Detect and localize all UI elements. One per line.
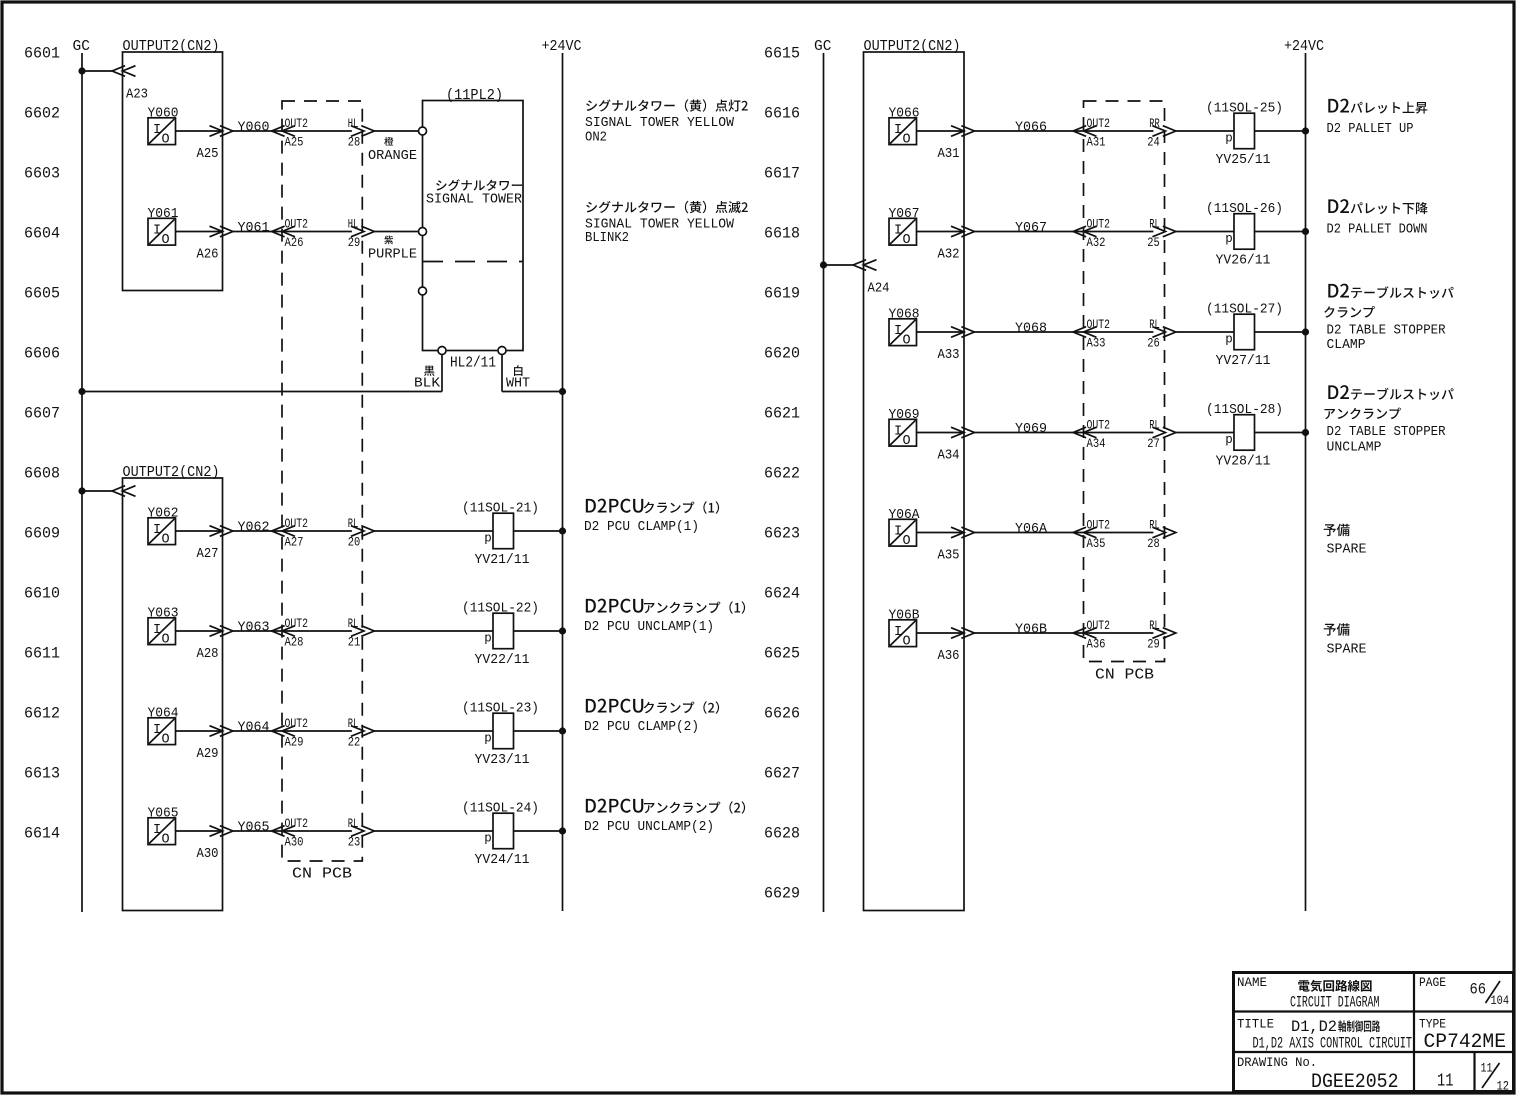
svg-text:6613: 6613: [24, 765, 60, 783]
arrow Y06A into CN PCB left edge: [1073, 527, 1096, 538]
svg-text:PURPLE: PURPLE: [368, 247, 417, 263]
svg-text:O: O: [903, 635, 911, 650]
wire Y065 connector to CN PCB: [233, 830, 352, 832]
wire Y063 connector to CN PCB: [233, 630, 352, 632]
signal tower name (Japanese): [436, 179, 522, 191]
wire Y067 CN PCB to solenoid: [1176, 231, 1234, 233]
annotation SIGNAL TOWER YELLOW ON2: [585, 115, 735, 146]
arrow Y062 out of CN PCB right edge: [351, 526, 374, 537]
svg-text:NAME: NAME: [1237, 976, 1267, 990]
wire solenoid YV28/11 to +24VC: [1255, 432, 1306, 434]
svg-text:6615: 6615: [764, 45, 800, 63]
svg-text:ORANGE: ORANGE: [368, 148, 417, 164]
page fraction slash: [1486, 981, 1501, 1003]
svg-text:OUT2: OUT2: [1087, 618, 1111, 633]
svg-text:(11SOL-24): (11SOL-24): [462, 801, 539, 817]
wire solenoid YV26/11 to +24VC: [1255, 231, 1306, 233]
svg-text:6627: 6627: [764, 765, 800, 783]
svg-text:6605: 6605: [24, 285, 60, 303]
title D1,D2軸制御回路: [1291, 1018, 1380, 1036]
svg-text:A35: A35: [938, 548, 960, 564]
svg-text:SPARE: SPARE: [1327, 542, 1367, 558]
annotation (Japanese) row y=231.5: [1328, 199, 1427, 214]
svg-text:O: O: [162, 133, 170, 148]
CN PCB pin label RL/25: [1147, 217, 1160, 250]
svg-text:TITLE: TITLE: [1237, 1018, 1274, 1032]
arrow into lower OUTPUT2 block: [112, 486, 135, 497]
svg-text:OUT2: OUT2: [285, 816, 309, 831]
svg-text:6603: 6603: [24, 165, 60, 183]
svg-text:UNCLAMP: UNCLAMP: [1327, 440, 1382, 456]
arrow Y065 into CN PCB left edge: [272, 826, 295, 837]
arrow Y061 into CN PCB left edge: [272, 226, 295, 237]
arrow Y061 at connector edge: [210, 226, 233, 237]
svg-text:6628: 6628: [764, 825, 800, 843]
svg-text:TYPE: TYPE: [1419, 1018, 1446, 1032]
junction dot YV28/11 on +24VC: [1302, 429, 1309, 436]
svg-text:Y065: Y065: [238, 820, 270, 836]
annotation D2 PCU UNCLAMP(1) (Japanese): [586, 599, 745, 614]
wire Y066 connector to CN PCB: [974, 130, 1153, 132]
svg-text:+24VC: +24VC: [1284, 39, 1324, 55]
svg-text:I: I: [153, 623, 161, 638]
wire Y067 module to connector edge: [917, 231, 965, 233]
svg-text:p: p: [484, 732, 492, 746]
wire Y066 CN PCB to solenoid: [1176, 130, 1234, 132]
wire WHT to +24VC: [502, 391, 563, 393]
svg-text:O: O: [903, 133, 911, 148]
annotation signal tower yellow blink2 (Japanese): [586, 201, 748, 214]
wire Y064 CN PCB to solenoid: [374, 730, 493, 732]
svg-text:A32: A32: [938, 247, 960, 263]
arrow Y068 out of CN PCB right edge: [1152, 327, 1175, 338]
terminal circle 11PL2 orange input: [419, 127, 427, 135]
wire solenoid YV22/11 to +24VC: [514, 630, 563, 632]
arrow Y064 at connector edge: [210, 726, 233, 737]
svg-text:YV27/11: YV27/11: [1216, 353, 1271, 369]
wire Y060 CN PCB to signal tower: [374, 130, 419, 132]
junction dot GC tap (lower block): [78, 487, 85, 494]
svg-text:6619: 6619: [764, 285, 800, 303]
wire Y061 CN PCB to signal tower: [374, 231, 419, 233]
arrow Y067 into CN PCB left edge: [1073, 226, 1096, 237]
arrow Y065 at connector edge: [210, 826, 233, 837]
arrow Y060 out of CN PCB right edge: [351, 126, 374, 137]
wire solenoid YV25/11 to +24VC: [1255, 130, 1306, 132]
wire Y060 module to connector edge: [176, 130, 223, 132]
svg-text:A35: A35: [1087, 536, 1106, 551]
annotation D2 PCU UNCLAMP(2) (Japanese): [586, 799, 745, 814]
annotation (Japanese) row y=432.5: [1328, 385, 1453, 400]
svg-text:22: 22: [348, 735, 361, 750]
svg-text:104: 104: [1491, 993, 1510, 1008]
svg-text:O: O: [162, 233, 170, 248]
svg-text:A29: A29: [197, 746, 219, 762]
wire Y069 module to connector edge: [917, 432, 965, 434]
svg-text:A32: A32: [1087, 235, 1106, 250]
junction dot BLK on GC: [78, 388, 85, 395]
CN PCB pin label OUT2/A32: [1087, 217, 1111, 250]
I/O output module Y067: [889, 218, 917, 248]
svg-text:A26: A26: [197, 247, 219, 263]
I/O output module Y063: [148, 618, 176, 648]
wire Y068 module to connector edge: [917, 331, 965, 333]
wire Y065 module to connector edge: [176, 830, 223, 832]
CN PCB dashed boundary (left): [282, 101, 362, 861]
svg-text:OUT2: OUT2: [285, 217, 309, 232]
svg-text:6624: 6624: [764, 585, 800, 603]
junction dot YV22/11 on +24VC: [559, 627, 566, 634]
wire Y063 CN PCB to solenoid: [374, 630, 493, 632]
annotation (Japanese) row y=432.5: [1325, 408, 1401, 420]
arrow Y060 into CN PCB left edge: [272, 126, 295, 137]
arrow Y069 at connector edge: [951, 427, 974, 438]
svg-text:21: 21: [348, 635, 361, 650]
wire GC tap to OUTPUT2 pin A24: [824, 264, 854, 266]
svg-text:6626: 6626: [764, 705, 800, 723]
svg-text:+24VC: +24VC: [542, 39, 582, 55]
arrow Y06B out of CN PCB right edge: [1152, 628, 1175, 639]
svg-text:SIGNAL TOWER: SIGNAL TOWER: [426, 192, 523, 208]
svg-text:D2 TABLE STOPPER: D2 TABLE STOPPER: [1327, 424, 1447, 440]
svg-text:A31: A31: [938, 146, 960, 162]
wire Y067 connector to CN PCB: [974, 231, 1153, 233]
svg-text:OUT2: OUT2: [1087, 418, 1111, 433]
svg-text:(11SOL-27): (11SOL-27): [1206, 302, 1283, 318]
svg-text:6610: 6610: [24, 585, 60, 603]
junction dot YV27/11 on +24VC: [1302, 328, 1309, 335]
svg-text:23: 23: [348, 835, 361, 850]
svg-text:SPARE: SPARE: [1327, 642, 1367, 658]
svg-text:6611: 6611: [24, 645, 60, 663]
svg-text:Y066: Y066: [1015, 120, 1047, 136]
svg-text:I: I: [153, 723, 161, 738]
svg-text:I: I: [894, 123, 902, 138]
arrow Y069 into CN PCB left edge: [1073, 427, 1096, 438]
arrow Y066 into CN PCB left edge: [1073, 126, 1096, 137]
svg-text:I: I: [153, 823, 161, 838]
svg-text:A34: A34: [1087, 436, 1106, 451]
arrow Y06A out of CN PCB right edge: [1152, 527, 1175, 538]
arrow Y066 out of CN PCB right edge: [1152, 126, 1175, 137]
CN PCB pin label RL/21: [348, 616, 361, 649]
CN PCB pin label RL/27: [1147, 418, 1160, 451]
svg-text:Y06B: Y06B: [1015, 622, 1047, 638]
svg-text:OUT2: OUT2: [285, 616, 309, 631]
junction dot GC tap A23: [78, 67, 85, 74]
connector OUTPUT2(CN2) lower-left block outline: [123, 478, 223, 911]
annotation SIGNAL TOWER YELLOW BLINK2: [585, 217, 735, 247]
svg-text:A23: A23: [126, 87, 148, 103]
wire Y069 CN PCB to solenoid: [1176, 432, 1234, 434]
svg-text:GC: GC: [73, 39, 91, 55]
arrow Y066 at connector edge: [951, 126, 974, 137]
svg-text:I: I: [894, 625, 902, 640]
I/O output module Y060: [148, 118, 176, 148]
svg-text:p: p: [1225, 433, 1233, 447]
svg-text:Y064: Y064: [238, 720, 270, 736]
wire Y06B connector to CN PCB: [974, 632, 1153, 634]
arrow Y06A at connector edge: [951, 527, 974, 538]
svg-text:6614: 6614: [24, 825, 60, 843]
arrow Y067 out of CN PCB right edge: [1152, 226, 1175, 237]
svg-text:29: 29: [348, 235, 361, 250]
svg-text:CP742ME: CP742ME: [1424, 1031, 1507, 1054]
svg-text:6606: 6606: [24, 345, 60, 363]
svg-text:(11SOL-22): (11SOL-22): [462, 601, 539, 617]
connector OUTPUT2(CN2) right block outline: [864, 52, 965, 911]
svg-text:D2 PALLET UP: D2 PALLET UP: [1327, 121, 1414, 137]
svg-text:20: 20: [348, 535, 361, 550]
CN PCB pin label OUT2/A30: [285, 816, 309, 849]
CN PCB pin label OUT2/A29: [285, 716, 309, 749]
wire Y062 module to connector edge: [176, 530, 223, 532]
junction dot YV24/11 on +24VC: [559, 827, 566, 834]
wire color label white (kanji): [514, 365, 523, 376]
wire color label purple (kanji): [384, 236, 393, 245]
CN PCB pin label OUT2/A35: [1087, 518, 1111, 551]
svg-text:I: I: [894, 525, 902, 540]
title 電気回路線図: [1298, 980, 1371, 992]
svg-text:D1,D2: D1,D2: [1291, 1018, 1337, 1036]
CN PCB pin label OUT2/A31: [1087, 116, 1111, 149]
arrow Y063 at connector edge: [210, 626, 233, 637]
svg-text:A25: A25: [197, 146, 219, 162]
svg-text:OUT2: OUT2: [285, 716, 309, 731]
CN PCB pin label OUT2/A26: [285, 217, 309, 250]
svg-text:Y062: Y062: [238, 520, 270, 536]
title block outline: [1234, 973, 1514, 1092]
svg-text:CLAMP: CLAMP: [1327, 337, 1366, 353]
svg-text:CN PCB: CN PCB: [1095, 668, 1154, 684]
svg-text:YV25/11: YV25/11: [1216, 152, 1271, 168]
svg-text:A30: A30: [285, 835, 304, 850]
svg-text:p: p: [1225, 333, 1233, 347]
svg-text:6608: 6608: [24, 465, 60, 483]
CN PCB pin label OUT2/A36: [1087, 618, 1111, 651]
CN PCB pin label RL/26: [1147, 317, 1160, 350]
CN PCB pin label OUT2/A33: [1087, 317, 1111, 350]
svg-text:66: 66: [1470, 981, 1487, 999]
wire Y069 connector to CN PCB: [974, 432, 1153, 434]
CN PCB pin label RL/29: [1147, 618, 1160, 651]
signal tower internal dashed divider: [423, 261, 523, 263]
arrow Y061 out of CN PCB right edge: [351, 226, 374, 237]
svg-text:CN PCB: CN PCB: [292, 867, 352, 883]
svg-text:Y061: Y061: [238, 220, 270, 236]
svg-text:6618: 6618: [764, 225, 800, 243]
wire GC tap to lower OUTPUT2 block: [82, 490, 113, 492]
wire Y066 module to connector edge: [917, 130, 965, 132]
terminal circle 11PL2 white bottom: [498, 347, 506, 355]
svg-text:YV22/11: YV22/11: [475, 652, 530, 668]
wire Y061 connector to CN PCB: [233, 231, 352, 233]
annotation (Japanese) row y=532.5: [1324, 524, 1350, 537]
I/O output module Y069: [889, 419, 917, 449]
svg-text:6616: 6616: [764, 105, 800, 123]
terminal circle 11PL2 black bottom: [438, 347, 446, 355]
wire solenoid YV27/11 to +24VC: [1255, 331, 1306, 333]
wire Y06A module to connector edge: [917, 532, 965, 534]
svg-text:Y063: Y063: [238, 620, 270, 636]
svg-text:ON2: ON2: [585, 130, 607, 146]
GC bus wire (left vertical): [81, 53, 83, 912]
arrow Y063 out of CN PCB right edge: [351, 626, 374, 637]
svg-text:(11SOL-25): (11SOL-25): [1206, 101, 1283, 117]
svg-text:DGEE2052: DGEE2052: [1311, 1071, 1399, 1094]
svg-text:D2 PCU CLAMP(1): D2 PCU CLAMP(1): [584, 519, 699, 535]
svg-text:D2 PCU UNCLAMP(2): D2 PCU UNCLAMP(2): [584, 819, 714, 835]
svg-text:YV28/11: YV28/11: [1216, 454, 1271, 470]
I/O output module Y06B: [889, 620, 917, 650]
svg-text:O: O: [903, 334, 911, 349]
wire Y064 connector to CN PCB: [233, 730, 352, 732]
terminal circle 11PL2 unused input: [419, 287, 427, 295]
I/O output module Y064: [148, 718, 176, 748]
solenoid valve YV22/11 (11SOL-22): [462, 601, 539, 669]
I/O output module Y068: [889, 319, 917, 349]
CN PCB pin label RR/24: [1147, 116, 1160, 149]
solenoid valve YV23/11 (11SOL-23): [462, 701, 539, 769]
junction dot YV26/11 on +24VC: [1302, 228, 1309, 235]
svg-text:p: p: [1225, 132, 1233, 146]
junction dot YV25/11 on +24VC: [1302, 127, 1309, 134]
solenoid valve YV27/11 (11SOL-27): [1206, 302, 1283, 370]
wire Y06B module to connector edge: [917, 632, 965, 634]
left line-number column 6601-6614: [24, 45, 60, 843]
annotation (Japanese) row y=131: [1328, 99, 1427, 114]
svg-text:Y069: Y069: [1015, 421, 1047, 437]
annotation D2 PCU CLAMP(1) (Japanese): [586, 499, 719, 514]
CN PCB pin label OUT2/A28: [285, 616, 309, 649]
arrow Y065 out of CN PCB right edge: [351, 826, 374, 837]
svg-text:I: I: [894, 425, 902, 440]
connector OUTPUT2(CN2) upper-left block outline: [123, 52, 223, 291]
svg-text:BLK: BLK: [414, 376, 441, 392]
svg-text:A34: A34: [938, 448, 960, 464]
svg-text:I: I: [153, 523, 161, 538]
svg-text:D2 PCU CLAMP(2): D2 PCU CLAMP(2): [584, 719, 699, 735]
svg-text:I: I: [894, 324, 902, 339]
svg-text:O: O: [162, 733, 170, 748]
svg-text:27: 27: [1147, 436, 1160, 451]
svg-text:A26: A26: [285, 235, 304, 250]
annotation (Japanese) row y=633: [1324, 623, 1350, 636]
solenoid valve YV25/11 (11SOL-25): [1206, 101, 1283, 169]
svg-text:YV26/11: YV26/11: [1216, 253, 1271, 269]
I/O output module Y061: [148, 218, 176, 248]
wire Y065 CN PCB to solenoid: [374, 830, 493, 832]
CN PCB pin label HL/28: [348, 116, 361, 149]
wire color label orange (kanji): [384, 137, 393, 146]
svg-text:O: O: [162, 833, 170, 848]
solenoid valve YV28/11 (11SOL-28): [1206, 402, 1283, 470]
svg-text:p: p: [1225, 232, 1233, 246]
arrow Y063 into CN PCB left edge: [272, 626, 295, 637]
svg-text:28: 28: [1147, 536, 1160, 551]
wire Y068 connector to CN PCB: [974, 331, 1153, 333]
annotation (Japanese) row y=332: [1324, 306, 1375, 318]
CN PCB dashed boundary (right): [1084, 101, 1165, 662]
svg-text:6621: 6621: [764, 405, 800, 423]
svg-text:28: 28: [348, 135, 361, 150]
svg-text:26: 26: [1147, 336, 1160, 351]
svg-text:OUT2: OUT2: [1087, 217, 1111, 232]
arrow Y062 at connector edge: [210, 526, 233, 537]
svg-text:24: 24: [1147, 135, 1160, 150]
solenoid valve YV24/11 (11SOL-24): [462, 801, 539, 869]
svg-text:OUT2: OUT2: [285, 516, 309, 531]
svg-text:p: p: [484, 532, 492, 546]
wire BLK down from tower: [441, 355, 443, 392]
wire Y062 connector to CN PCB: [233, 530, 352, 532]
svg-text:A36: A36: [938, 648, 960, 664]
svg-text:6617: 6617: [764, 165, 800, 183]
svg-text:6612: 6612: [24, 705, 60, 723]
wire Y064 module to connector edge: [176, 730, 223, 732]
wire Y061 module to connector edge: [176, 231, 223, 233]
CN PCB pin label OUT2/A27: [285, 516, 309, 549]
lamp signal tower 11PL2 outline: [423, 101, 524, 351]
svg-text:O: O: [162, 533, 170, 548]
svg-text:(11PL2): (11PL2): [446, 88, 503, 104]
svg-text:D2 PALLET DOWN: D2 PALLET DOWN: [1327, 222, 1428, 238]
svg-text:PAGE: PAGE: [1419, 976, 1446, 990]
sheet fraction slash: [1482, 1063, 1500, 1088]
svg-text:I: I: [153, 224, 161, 239]
arrow Y068 at connector edge: [951, 327, 974, 338]
I/O output module Y065: [148, 818, 176, 848]
svg-text:6602: 6602: [24, 105, 60, 123]
svg-text:6604: 6604: [24, 225, 60, 243]
svg-text:6609: 6609: [24, 525, 60, 543]
svg-text:DRAWING No.: DRAWING No.: [1237, 1056, 1317, 1070]
svg-text:A27: A27: [285, 535, 304, 550]
svg-text:YV23/11: YV23/11: [475, 752, 530, 768]
wire Y063 module to connector edge: [176, 630, 223, 632]
svg-text:O: O: [903, 434, 911, 449]
wire Y068 CN PCB to solenoid: [1176, 331, 1234, 333]
svg-text:HL2/11: HL2/11: [450, 356, 496, 372]
svg-text:p: p: [484, 632, 492, 646]
svg-text:O: O: [903, 233, 911, 248]
arrow into OUTPUT2 pin A24: [853, 260, 876, 271]
svg-text:25: 25: [1147, 235, 1160, 250]
right line-number column 6615-6629: [764, 45, 800, 903]
CN PCB pin label RL/22: [348, 716, 361, 749]
svg-text:6622: 6622: [764, 465, 800, 483]
svg-text:I: I: [894, 224, 902, 239]
svg-text:OUT2: OUT2: [285, 116, 309, 131]
arrow Y069 out of CN PCB right edge: [1152, 427, 1175, 438]
wire Y062 CN PCB to solenoid: [374, 530, 493, 532]
svg-text:11: 11: [1437, 1071, 1454, 1092]
svg-text:A28: A28: [197, 646, 219, 662]
svg-text:A27: A27: [197, 546, 219, 562]
annotation D2 PCU CLAMP(2) (Japanese): [586, 699, 719, 714]
junction dot GC tap A24: [820, 261, 827, 268]
svg-text:WHT: WHT: [506, 376, 530, 392]
svg-text:6629: 6629: [764, 885, 800, 903]
wire solenoid YV21/11 to +24VC: [514, 530, 563, 532]
svg-text:A29: A29: [285, 735, 304, 750]
svg-text:p: p: [484, 832, 492, 846]
CN PCB pin label RL/28: [1147, 518, 1160, 551]
arrow Y064 into CN PCB left edge: [272, 726, 295, 737]
CN PCB pin label RL/23: [348, 816, 361, 849]
svg-text:A36: A36: [1087, 637, 1106, 652]
svg-text:OUT2: OUT2: [1087, 518, 1111, 533]
